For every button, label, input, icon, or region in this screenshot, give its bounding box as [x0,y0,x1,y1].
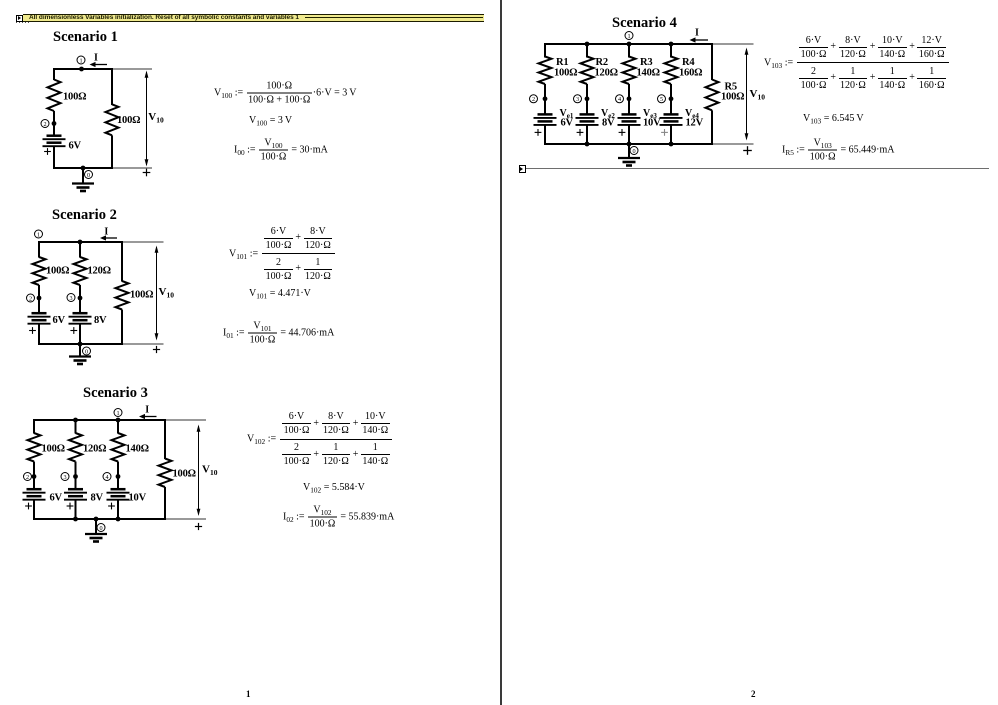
svg-text:100Ω: 100Ω [42,444,65,455]
svg-text:120Ω: 120Ω [88,266,111,277]
junction dot branch2 bottom [73,517,78,522]
yellow highlighted area band [23,14,484,22]
svg-text:6V: 6V [50,493,63,504]
battery 6V source [43,136,66,147]
svg-text:100Ω: 100Ω [554,68,577,79]
svg-text:V10: V10 [750,88,766,101]
junction dot branch2 top [73,418,78,423]
plus terminal battery3 [619,129,626,136]
wire thin bottom extension to V10 [114,167,152,169]
title Scenario 3 [83,385,148,402]
wire thin bottom extension to V10 [167,518,206,520]
junction dot node 4 [627,96,632,101]
wire branch2 middle [75,462,77,490]
wire bottom (node 0 rail) [39,343,122,345]
resistor R5 100&#937; [706,80,719,111]
plus terminal battery [44,148,51,155]
collapsed area line page 2 [526,168,989,169]
wire right branch lower [111,135,113,169]
svg-text:6V: 6V [561,118,574,129]
wire bottom (node 0 rail) [34,518,165,520]
node 0 marker [97,524,105,532]
wire branch1 middle [544,84,546,114]
node 1 marker [77,56,85,64]
junction dot node 1 [79,67,84,72]
battery 6V source [23,489,46,500]
svg-text:3: 3 [63,474,66,481]
junction dot node 4 [116,474,121,479]
svg-text:1: 1 [79,57,82,64]
wire branch2 lower [75,499,77,520]
svg-text:120Ω: 120Ω [83,444,106,455]
svg-text:0: 0 [87,172,90,179]
svg-text:1: 1 [627,33,630,40]
collapsed area icon box [16,15,24,23]
wire left branch upper [53,68,55,80]
junction dot branch2 bottom [585,142,590,147]
ground [69,344,91,364]
circuit schematic scenario 3 [18,400,223,545]
wire branch3 upper [117,419,119,434]
wire thin top extension to V10 [714,43,754,45]
svg-text:10V: 10V [643,118,661,129]
battery Ve1 6V source [534,114,557,125]
svg-text:3: 3 [576,96,579,103]
junction dot node 0 [81,166,86,171]
resistor 100&#937; branch1 [33,257,46,285]
svg-text:0: 0 [99,525,102,532]
plus terminal battery2 [70,327,77,334]
svg-text:2: 2 [26,474,29,481]
resistor 120&#937; branch2 [74,257,87,285]
svg-text:100Ω: 100Ω [130,290,153,301]
equation I02 [283,504,394,531]
wire branch3 middle [117,462,119,490]
title Scenario 1 [53,29,118,46]
svg-text:V10: V10 [148,111,164,124]
svg-text:0: 0 [85,348,88,355]
wire branch1 lower [38,323,40,345]
resistor 120&#937; branch2 [69,433,82,462]
node 3 marker [574,95,582,103]
svg-text:4: 4 [618,96,621,103]
area band text [29,14,299,21]
wire branch4 lower [670,124,672,145]
current arrow I [90,52,108,67]
ground [72,168,94,191]
junction dot node 0 [627,142,632,147]
plus sign V10 polarity [143,169,151,177]
wire branch2 middle [79,285,81,313]
circuit schematic scenario 2 [20,225,220,375]
resistor R4 160&#937; [665,57,678,85]
page number 1 [246,689,251,699]
current arrow I [139,405,157,420]
wire right branch upper [121,241,123,282]
wire branch2 lower [79,323,81,345]
circuit schematic scenario 4 [515,10,775,185]
wire branch1 upper [544,43,546,58]
ground [618,144,640,166]
svg-text:1: 1 [37,231,40,238]
wire thin bottom extension to V10 [714,143,754,145]
junction dot node 2 [543,96,548,101]
svg-text:100Ω: 100Ω [117,115,140,126]
plus terminal battery2 [577,129,584,136]
node 4 marker [103,473,111,481]
dotted selection marks under icon [16,22,30,23]
wire thin top extension to V10 [114,68,152,70]
battery 6V source [28,313,51,324]
svg-text:V10: V10 [202,464,218,477]
voltage arrow V10 [197,425,201,517]
voltage arrow V10 [145,71,149,167]
wire branch3 middle [628,84,630,114]
svg-text:120Ω: 120Ω [595,68,618,79]
wire branch3 lower [628,124,630,145]
junction dot branch2 top [585,42,590,47]
wire branch3 upper [628,43,630,58]
wire thin bottom extension to V10 [124,343,164,345]
node 1 marker [35,230,43,238]
wire branch1 middle [38,285,40,313]
wire bottom (node 0 rail) [54,167,112,169]
svg-text:R1: R1 [556,57,568,68]
svg-text:2: 2 [532,96,535,103]
page number 2 [751,689,756,699]
wire bottom (node 0 rail) [545,143,712,145]
svg-text:2: 2 [43,121,46,128]
collapsed area marker page 2 [519,165,527,173]
resistor 100&#937; right branch [116,281,129,310]
svg-text:100Ω: 100Ω [46,266,69,277]
circuit schematic scenario 1 [25,48,200,203]
svg-text:R2: R2 [596,57,608,68]
resistor R2 120&#937; [581,57,594,85]
svg-text:3: 3 [69,295,72,302]
svg-text:8V: 8V [94,315,107,326]
node 2 marker [41,120,49,128]
wire branch1 upper [33,419,35,434]
svg-text:10V: 10V [129,493,147,504]
plus terminal battery1 [29,327,36,334]
resistor 100&#937; right branch [106,104,119,135]
node 1 marker [625,32,633,40]
svg-text:100Ω: 100Ω [63,92,86,103]
junction dot node 5 [669,96,674,101]
equation V100 definition [214,79,357,106]
junction dot node 0 [78,342,83,347]
svg-text:160Ω: 160Ω [679,68,702,79]
ground [85,519,107,542]
svg-text:8V: 8V [602,118,615,129]
wire thin top extension to V10 [167,419,206,421]
svg-text:8V: 8V [91,493,104,504]
wire branch2 upper [586,43,588,58]
equation V101 definition [229,225,336,283]
equation V102 result [303,482,365,494]
equation V101 result [249,288,311,300]
node 0 marker [630,147,638,155]
node 0 marker [85,171,93,179]
resistor 100&#937; left branch [48,80,61,112]
wire branch2 upper [75,419,77,434]
page divider line [500,0,502,705]
plus terminal battery4 [661,129,668,136]
battery Ve2 8V source [576,114,599,125]
wire branch3 lower [117,499,119,520]
equation I01 [223,319,334,346]
plus terminal battery1 [25,503,32,510]
battery 8V source [64,489,87,500]
svg-text:I: I [94,52,98,63]
svg-text:6V: 6V [53,315,66,326]
junction dot node 1 [116,418,121,423]
title Scenario 2 [52,207,117,224]
plus terminal battery2 [67,503,74,510]
wire right branch lower [121,310,123,346]
current arrow I [100,227,117,241]
svg-text:1: 1 [116,410,119,417]
wire branch4 middle [670,84,672,114]
wire branch4 upper [670,43,672,58]
junction dot branch3 bottom [116,517,121,522]
wire right branch upper [164,419,166,459]
wire right branch upper [111,68,113,105]
current arrow I [690,28,709,43]
junction dot node 3 [585,96,590,101]
node 2 marker [27,294,35,302]
wire branch1 middle [33,462,35,490]
node 2 marker [530,95,538,103]
wire left branch middle [53,111,55,136]
svg-text:100Ω: 100Ω [173,469,196,480]
battery Ve4 12V source [660,114,683,125]
plus sign V10 polarity [743,146,752,155]
resistor R1 100&#937; [539,57,552,85]
svg-text:140Ω: 140Ω [126,444,149,455]
plus terminal battery3 [108,503,115,510]
junction dot node 1 [627,42,632,47]
wire branch1 lower [33,499,35,520]
wire top (node 1 rail) [54,68,112,70]
svg-text:I: I [145,405,149,416]
equation I00 [234,136,328,163]
wire branch1 lower [544,124,546,145]
equation IR5 [782,137,895,164]
node 3 marker [61,473,69,481]
junction dot node 2 [37,296,42,301]
svg-text:V10: V10 [159,286,175,299]
svg-text:140Ω: 140Ω [637,68,660,79]
node 4 marker [616,95,624,103]
node 2 marker [24,473,32,481]
wire thin top extension to V10 [124,241,164,243]
svg-text:4: 4 [105,474,108,481]
wire top (node 1 rail) [39,241,122,243]
junction dot node 3 [73,474,78,479]
voltage arrow V10 [155,246,159,341]
svg-text:12V: 12V [686,118,704,129]
plus terminal battery1 [535,129,542,136]
node 0 marker [83,347,91,355]
resistor 140&#937; branch3 [112,433,125,462]
plus sign V10 polarity [153,346,160,353]
node 1 marker [114,409,122,417]
wire left branch lower [53,146,55,169]
wire top (node 1 rail) [545,43,712,45]
svg-text:0: 0 [632,148,635,155]
wire branch1 upper [38,241,40,258]
junction dot node 3 [78,296,83,301]
wire right branch lower [711,110,713,145]
battery 10V source [107,489,130,500]
wire right branch upper [711,43,713,80]
junction dot node 2 [52,121,57,126]
area band rule line [305,17,483,18]
svg-text:6V: 6V [69,141,82,152]
wire branch2 middle [586,84,588,114]
junction dot node 0 [94,517,99,522]
equation V102 definition [247,410,393,468]
node 3 marker [67,294,75,302]
svg-text:5: 5 [660,96,663,103]
equation V103 definition [764,34,950,92]
plus sign V10 polarity [195,523,202,530]
title Scenario 4 [612,15,677,32]
battery 8V source [69,313,92,324]
junction dot branch4 top [669,42,674,47]
wire top (node 1 rail) [34,419,165,421]
svg-text:R3: R3 [640,57,652,68]
junction dot node 2 [32,474,37,479]
svg-text:2: 2 [29,295,32,302]
junction dot branch2 top [78,240,83,245]
equation V103 result [803,113,864,125]
junction dot branch4 bottom [669,142,674,147]
voltage arrow V10 [745,48,749,141]
svg-text:100Ω: 100Ω [721,92,744,103]
svg-text:I: I [695,28,699,39]
equation V100 result [249,115,292,127]
resistor R3 140&#937; [623,57,636,85]
battery Ve3 10V source [618,114,641,125]
resistor 100&#937; branch1 [28,433,41,462]
node 5 marker [658,95,666,103]
svg-text:R4: R4 [682,57,695,68]
wire right branch lower [164,487,166,520]
wire branch2 lower [586,124,588,145]
wire branch2 upper [79,241,81,258]
resistor 100&#937; right branch [159,459,172,488]
